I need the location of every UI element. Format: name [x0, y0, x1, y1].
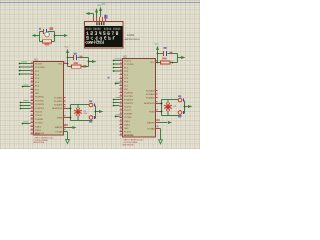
svg-text:EA/VPP: EA/VPP: [147, 121, 155, 124]
svg-text:VCC: VCC: [58, 64, 63, 66]
svg-text:P2.0/A8: P2.0/A8: [55, 131, 63, 134]
svg-text:XTAL1: XTAL1: [124, 123, 131, 126]
svg-text:ALE/PROG: ALE/PROG: [144, 102, 155, 105]
svg-text:12M: 12M: [84, 113, 88, 115]
svg-text:VCC: VCC: [65, 47, 70, 49]
svg-text:P0.6/AD6: P0.6/AD6: [146, 96, 155, 99]
svg-text:P2.0/A8: P2.0/A8: [147, 127, 155, 130]
svg-text:P3.7/RD: P3.7/RD: [124, 117, 132, 119]
svg-text:P3.2/INT0: P3.2/INT0: [124, 99, 134, 101]
svg-text:P0.4/AD4: P0.4/AD4: [146, 89, 155, 92]
svg-text:LCD1: LCD1: [127, 33, 135, 37]
svg-text:XTAL1: XTAL1: [35, 129, 42, 132]
svg-text:P3.2/INT0: P3.2/INT0: [35, 104, 45, 106]
svg-text:P3.1/TXD: P3.1/TXD: [35, 100, 44, 102]
svg-text:GND: GND: [124, 128, 129, 130]
svg-text:XTAL2: XTAL2: [124, 120, 131, 123]
svg-text:X1: X1: [84, 110, 87, 112]
svg-text:PSEN: PSEN: [149, 111, 155, 113]
svg-text:P3.4/T0: P3.4/T0: [124, 107, 132, 109]
svg-text:P3.5/T1: P3.5/T1: [35, 115, 43, 117]
svg-text:P1.0/T2: P1.0/T2: [35, 63, 43, 65]
svg-text:P0.6/AD6: P0.6/AD6: [54, 103, 63, 106]
svg-text:P1.0/T2: P1.0/T2: [124, 60, 132, 62]
svg-text:AT89C51: AT89C51: [124, 134, 134, 137]
svg-text:<TEXT> AT89C51.hex: <TEXT> AT89C51.hex: [123, 138, 145, 141]
svg-text:P3.3/INT1: P3.3/INT1: [35, 108, 45, 110]
svg-text:U1: U1: [34, 58, 38, 62]
svg-text:P3.6/WR: P3.6/WR: [35, 119, 44, 121]
svg-text:PSEN: PSEN: [57, 117, 63, 119]
svg-text:VCC: VCC: [155, 44, 160, 46]
svg-text:P3.6/WR: P3.6/WR: [124, 114, 133, 116]
svg-text:AT89C51: AT89C51: [35, 132, 45, 135]
svg-text:U2: U2: [123, 55, 127, 59]
svg-text:P3.7/RD: P3.7/RD: [35, 123, 43, 125]
svg-text:P3.4/T0: P3.4/T0: [35, 112, 43, 114]
svg-text:P0.5/AD5: P0.5/AD5: [54, 100, 63, 103]
svg-text:ADV MODE: ADV MODE: [34, 141, 45, 144]
svg-text:P1.0/T2: P1.0/T2: [124, 131, 132, 133]
svg-text:ALE/PROG: ALE/PROG: [52, 107, 63, 110]
svg-text:P1.1/T2EX: P1.1/T2EX: [124, 64, 134, 66]
svg-text:P3.5/T1: P3.5/T1: [124, 110, 132, 112]
svg-text:ADV MODE: ADV MODE: [123, 144, 135, 147]
svg-text:P3.0/RXD: P3.0/RXD: [35, 97, 44, 99]
svg-text:XTAL2: XTAL2: [35, 125, 42, 128]
svg-text:P3.0/RXD: P3.0/RXD: [124, 92, 133, 94]
svg-text:X2: X2: [174, 106, 177, 108]
svg-text:EA/VPP: EA/VPP: [55, 126, 63, 129]
svg-text:P1.1/T2EX: P1.1/T2EX: [35, 67, 45, 69]
svg-text:VCC: VCC: [150, 62, 155, 64]
svg-text:P0.5/AD5: P0.5/AD5: [146, 93, 155, 96]
svg-text:P0.4/AD4: P0.4/AD4: [54, 96, 63, 99]
svg-text:P3.3/INT1: P3.3/INT1: [124, 103, 134, 105]
svg-text:P3.1/TXD: P3.1/TXD: [124, 96, 133, 98]
svg-text:AMPIRE128X64: AMPIRE128X64: [125, 38, 141, 41]
